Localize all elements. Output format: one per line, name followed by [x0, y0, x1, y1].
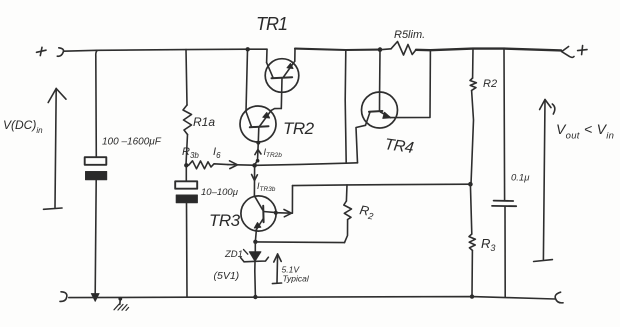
svg-text:R5lim.: R5lim.	[394, 29, 425, 41]
resistor R1a	[183, 105, 192, 135]
node junction dot TR3 emitter	[253, 240, 257, 244]
wire TR2 base down	[255, 142, 258, 165]
svg-text:0.1μ: 0.1μ	[511, 173, 530, 184]
wire resistor R1a bottom lead	[186, 135, 188, 165]
node 5.1V arrow	[272, 254, 281, 284]
transistor TR1	[265, 59, 299, 109]
ground	[114, 297, 129, 311]
node junction dot center	[252, 163, 257, 168]
node I TR2b arrowhead on wire	[255, 150, 261, 155]
node junction dot zener bottom	[253, 295, 257, 299]
wire vertical from top line to I6 line	[345, 50, 346, 163]
node arrowhead at rail junction	[91, 294, 99, 302]
wire resistor R2s bottom lead	[345, 220, 348, 243]
svg-text:ZD1: ZD1	[224, 249, 243, 260]
transistor TR3	[241, 196, 276, 231]
wire TR3 emitter down	[255, 230, 256, 241]
wire bottom rail	[69, 297, 555, 299]
wire resistor R2 bottom lead	[471, 90, 474, 184]
wire TR3 base from junction	[253, 167, 255, 196]
wire capacitor C3 bottom lead	[504, 206, 506, 297]
node Vout arrow	[534, 100, 555, 262]
wire hook up to TR4 base	[356, 125, 366, 163]
node Vin arrow	[44, 89, 67, 210]
node output terminal chevron	[562, 47, 574, 58]
wire resistor R3 top lead	[470, 184, 471, 234]
node bottom-right terminal arc	[555, 292, 563, 303]
wire TR4 emitter right and up	[390, 50, 430, 117]
capacitor C3 plates	[494, 200, 514, 202]
node I TR3b arrowhead down	[252, 175, 258, 181]
transistor TR4	[362, 92, 398, 128]
wire TR3 collector corner up	[291, 186, 293, 214]
svg-text:R1a: R1a	[193, 115, 215, 129]
svg-text:100 –1600μF: 100 –1600μF	[102, 137, 162, 148]
wire capacitor C3 top lead	[503, 49, 506, 201]
node junction dot mid line right	[468, 182, 473, 187]
svg-text:TR1: TR1	[256, 14, 287, 34]
svg-text:10–100μ: 10–100μ	[201, 187, 239, 198]
resistor R5lim	[391, 42, 416, 56]
capacitor C1 top plate	[85, 157, 107, 165]
wire resistor R2 top lead (right)	[472, 49, 474, 78]
svg-text:Typical: Typical	[283, 274, 310, 284]
capacitor C2 top plate	[175, 181, 197, 188]
node junction dot TR2 collector on rail	[246, 47, 250, 51]
resistor R2 script	[344, 201, 352, 220]
capacitor C1 bottom plate (filled)	[86, 172, 107, 180]
wire TR1 emitter line to R5lim	[295, 49, 380, 50]
diode ZD1	[241, 244, 269, 297]
node + input plus sign	[37, 47, 47, 55]
resistor R3	[469, 234, 475, 250]
node junction dot R3 bottom	[470, 294, 474, 298]
wire output mid line	[293, 184, 471, 185]
wire R5lim to right plus (thick)	[416, 49, 561, 51]
node small dot TR2 base wire	[256, 159, 260, 163]
node junction dot TR4 collector	[378, 47, 383, 52]
wire resistor R2s top lead	[345, 185, 348, 201]
transistor TR2	[240, 106, 276, 142]
node bottom-left terminal arc	[60, 292, 67, 302]
node dot TR2 base at circle	[256, 141, 260, 145]
svg-text:TR2: TR2	[283, 119, 315, 138]
wire resistor R3 bottom lead	[471, 250, 473, 296]
wire resistor R1a top lead	[186, 50, 187, 105]
capacitor C2 bottom plate (filled)	[176, 195, 197, 203]
wire capacitor C2 bottom lead	[186, 203, 189, 297]
wire to R5lim	[382, 48, 391, 51]
svg-text:TR3: TR3	[209, 211, 241, 230]
wire I6 line to right	[257, 163, 358, 166]
resistor R2 right	[470, 78, 476, 90]
node dot TR3 collector	[274, 211, 278, 215]
node I6 current arrowhead	[228, 161, 238, 169]
wire TR2 emitter to TR1 base	[271, 109, 281, 111]
node junction dot R3b left	[184, 163, 188, 167]
wire emitter line right	[258, 241, 345, 244]
wire capacitor C1 top lead	[96, 50, 98, 156]
wire TR2 collector up to rail	[246, 50, 248, 112]
wire capacitor C2 top lead	[185, 166, 187, 181]
wire TR3 collector with arrow	[276, 210, 292, 217]
wire top-left rail	[64, 49, 267, 51]
wire capacitor C1 bottom lead	[95, 180, 96, 294]
node output plus sign	[578, 46, 587, 55]
node input terminal arc	[57, 48, 63, 56]
resistor R3b zigzag	[189, 161, 229, 169]
wire TR4 collector up	[379, 51, 381, 92]
wire R3b to junction	[238, 164, 254, 166]
wire TR1 emitter up	[294, 49, 296, 62]
wire TR1 collector to rail	[266, 49, 268, 62]
svg-text:R2: R2	[483, 78, 497, 90]
svg-text:(5V1): (5V1)	[214, 270, 240, 282]
